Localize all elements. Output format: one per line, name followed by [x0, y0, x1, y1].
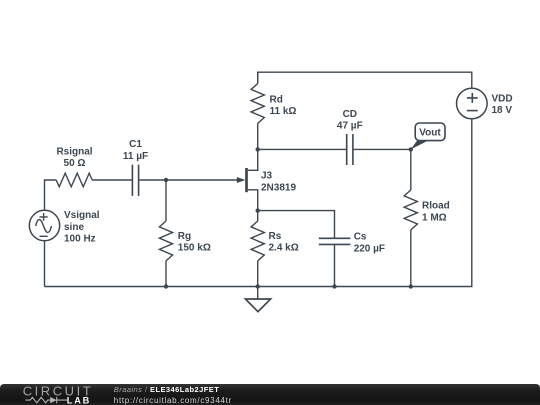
label Rload 1 MΩ [422, 201, 450, 224]
label Rg 150 kΩ [178, 231, 211, 254]
label J3 2N3819 [261, 171, 296, 194]
wire Rd to drain [257, 123, 259, 149]
node Rload bottom junction [409, 284, 413, 288]
wire left top [45, 180, 57, 210]
resistor Rg [159, 221, 172, 261]
node tag Vout pointer [411, 141, 428, 150]
transistor J3 source lead [248, 190, 258, 211]
node tag Vout box [415, 123, 445, 141]
footer title text [114, 385, 219, 394]
resistor Rload [404, 190, 417, 230]
wire Rs bottom lead [257, 261, 259, 287]
label CD 47 µF [337, 109, 363, 132]
wire drain node to CD [258, 148, 347, 150]
capacitor C1 [132, 165, 138, 196]
node ground junction [256, 284, 260, 288]
node Rg bottom junction [164, 284, 168, 288]
wire Rg bottom lead [165, 261, 167, 287]
wire left bottom [44, 241, 46, 287]
node Vout junction [409, 147, 413, 151]
voltage source VDD [457, 88, 488, 119]
label Cs 220 µF [354, 232, 385, 255]
capacitor Cs [319, 238, 351, 244]
footer url text [114, 396, 232, 405]
resistor Rsignal [56, 173, 92, 187]
transistor J3 channel bar [245, 168, 248, 192]
footer logo CIRCUIT LAB [22, 385, 102, 405]
transistor J3 gate arrow [237, 177, 246, 183]
resistor Rs [251, 221, 264, 261]
label VDD 18 V [492, 94, 513, 117]
wire gate node to J3 [166, 179, 239, 181]
transistor J3 drain lead [248, 149, 258, 170]
wire Vout node to Rload [410, 149, 412, 190]
wire C1 to gate node [139, 179, 166, 181]
label Rsignal 50 Ω [56, 147, 92, 170]
wire CD to Vout node [353, 148, 411, 150]
wire Rload bottom lead [410, 230, 412, 287]
wire bottom rail and right rail [45, 119, 472, 287]
label Vsignal sine 100 Hz [64, 210, 100, 244]
wire Rs top lead [257, 211, 259, 221]
node drain junction [256, 147, 260, 151]
svg-text:LAB: LAB [67, 396, 91, 405]
node source junction [256, 208, 260, 212]
ground [245, 287, 270, 312]
voltage source Vsignal [29, 210, 59, 240]
wire top rail [258, 72, 472, 88]
label C1 11 µF [123, 139, 148, 162]
wire source node to Cs [258, 211, 335, 238]
wire Cs bottom lead [334, 244, 336, 286]
wire Rg top lead [165, 180, 167, 221]
node Cs bottom junction [332, 284, 336, 288]
footer bar [0, 384, 540, 405]
wire Rsignal to C1 [92, 179, 132, 181]
resistor Rd [251, 84, 264, 124]
capacitor CD [347, 134, 353, 165]
label Rd 11 kΩ [270, 94, 297, 117]
node gate junction [164, 178, 168, 182]
label Rs 2.4 kΩ [269, 231, 299, 254]
wire Rd top lead [257, 72, 259, 83]
